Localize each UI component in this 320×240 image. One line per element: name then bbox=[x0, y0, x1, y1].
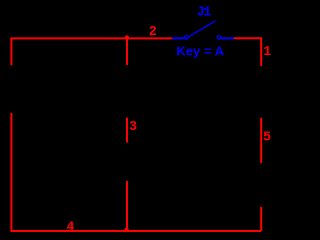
wire: right vertical bottom segment bbox=[260, 207, 262, 231]
switch J1 left pin stub bbox=[172, 37, 185, 39]
svg-text:J1: J1 bbox=[197, 5, 212, 20]
switch J1 left terminal circle bbox=[185, 36, 188, 39]
wire: top-left horizontal + left vertical upper segment (node 2 net) bbox=[11, 38, 172, 65]
svg-text:4: 4 bbox=[66, 221, 74, 236]
svg-text:5: 5 bbox=[263, 130, 271, 145]
wire: middle vertical center segment (node 3) bbox=[126, 118, 128, 143]
svg-text:Key = A: Key = A bbox=[176, 43, 224, 58]
switch J1 lever arm bbox=[189, 21, 216, 37]
wire: left vertical lower segment + bottom horizontal (node 4 net) bbox=[11, 113, 261, 231]
switch J1 right terminal circle bbox=[217, 36, 220, 39]
svg-text:1: 1 bbox=[263, 45, 271, 60]
wire: middle vertical lower segment bbox=[126, 181, 128, 231]
wire: middle vertical upper segment bbox=[126, 38, 128, 65]
wire: right vertical middle segment (node 5) bbox=[260, 118, 262, 163]
svg-text:2: 2 bbox=[149, 25, 157, 40]
switch J1 right pin stub bbox=[221, 37, 234, 39]
junction dot at top of branch 3 bbox=[125, 35, 129, 39]
svg-text:3: 3 bbox=[129, 120, 137, 135]
junction dot at bottom of branch 3 bbox=[124, 228, 129, 233]
wire: top-right horizontal + right vertical upper segment (node 1 net) bbox=[234, 38, 262, 66]
